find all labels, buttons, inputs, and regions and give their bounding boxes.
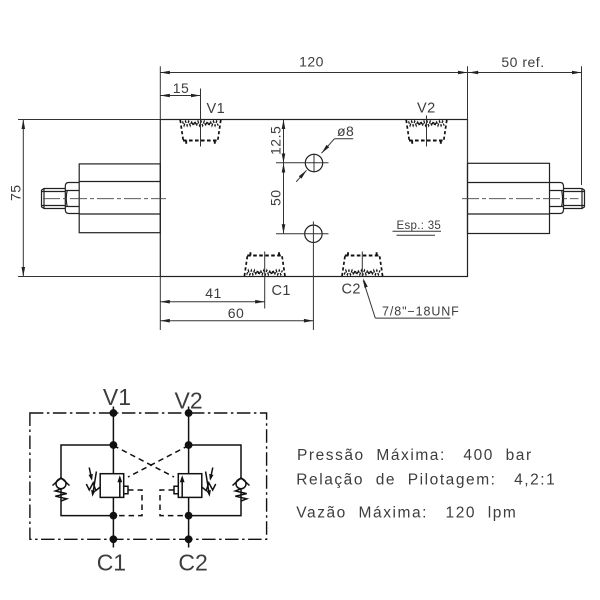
svg-text:Esp.: 35: Esp.: 35 [397,220,442,232]
right cartridge body [468,163,550,233]
relief valve left internal pilot line [116,490,142,516]
svg-text:V2: V2 [417,101,436,117]
svg-text:60: 60 [228,305,245,321]
left hex nut [65,183,79,214]
port C1 (threaded hole) [244,250,285,276]
node V2 top [185,409,193,417]
right hex nut [550,183,564,214]
node V1 top [110,409,118,417]
dimension 50 line [283,163,285,234]
right centerline [462,198,579,200]
relief valve left body [100,474,124,498]
port C2 centerline [361,252,363,277]
V2 line [188,407,190,474]
node V2 junction [185,441,193,449]
svg-text:C1: C1 [97,550,126,576]
dimension 60 line [160,320,313,322]
check valve right seat [233,478,250,486]
dimension 75 extension lines [18,119,160,121]
check valve right spring [235,489,246,501]
port V1 centerline [200,89,202,147]
svg-text:C1: C1 [272,283,291,299]
port V2 (threaded hole) [406,120,447,146]
valve body outline [160,120,467,277]
svg-text:Pressão Máxima: 400 bar: Pressão Máxima: 400 bar [297,447,533,464]
port V2 centerline [426,116,428,147]
relief valve right internal pilot line [160,490,186,516]
relief valve left adjust arrows [89,468,91,479]
left centerline [43,198,166,200]
right bypass branch [189,445,241,516]
dimension 12.5 line [283,120,285,164]
V1 line [112,407,114,474]
svg-text:C2: C2 [178,550,207,576]
relief valve right flow arrow [181,478,183,498]
relief valve right body [178,474,202,498]
svg-text:ø8: ø8 [337,123,354,139]
svg-text:Relação de Pilotagem: 4,2:: Relação de Pilotagem: 4,2:1 [296,472,556,489]
relief valve right adjust arrows [210,468,212,479]
check valve left spring [55,489,66,501]
node C1 bottom [110,535,118,543]
check valve left seat [53,478,70,486]
svg-text:Vazão Máxima: 120 lpm: Vazão Máxima: 120 lpm [296,504,517,521]
port C2 (threaded hole) [342,250,383,276]
dimension 41 extension line [159,277,161,331]
dimension 50 ref. line [468,72,582,74]
leader 7/8-18UNF [363,281,375,319]
port C1 centerline / extension [264,252,266,309]
dimension 75 line [22,120,24,277]
dimension 41 line [160,301,264,303]
svg-text:41: 41 [205,285,222,301]
svg-text:120: 120 [299,54,324,70]
relief valve left flow arrow [119,478,121,498]
left stud [42,189,66,209]
lower hole centerline extension [312,222,314,331]
node C1 junction [110,512,118,520]
dimension 120 line [160,72,467,74]
relief valve right pilot tab [174,486,178,494]
relief valve left pilot tab [124,486,128,494]
schematic boundary box [30,413,267,539]
cross pilot line V1 to right valve [113,446,174,478]
C1 line [112,497,114,547]
left bypass branch [61,445,113,516]
svg-text:7/8"−18UNF: 7/8"−18UNF [382,305,460,319]
right stud [564,189,585,209]
svg-text:12.5: 12.5 [268,126,284,155]
node V1 junction [110,441,118,449]
check valve right ball [236,479,246,489]
svg-text:50 ref.: 50 ref. [501,54,544,70]
svg-text:50: 50 [268,189,284,206]
dimension 15 line [160,95,200,97]
relief valve left spring [86,483,100,491]
dimension 120 extension lines [159,66,161,119]
pilot hole upper o8 [305,154,322,171]
relief valve right spring [202,483,216,491]
svg-text:V1: V1 [207,101,226,117]
cross pilot line V2 to left valve [128,446,189,478]
svg-text:75: 75 [8,184,24,201]
port V1 (threaded hole) [180,120,221,146]
C2 line [188,497,190,547]
svg-text:C2: C2 [342,282,361,298]
node C2 bottom [185,535,193,543]
left cartridge body [79,164,160,233]
node C2 junction [185,512,193,520]
svg-text:15: 15 [173,80,190,96]
svg-text:V1: V1 [103,384,131,410]
leader o8 [322,139,335,154]
check valve left ball [56,479,66,489]
pilot hole lower o8 [305,225,322,242]
